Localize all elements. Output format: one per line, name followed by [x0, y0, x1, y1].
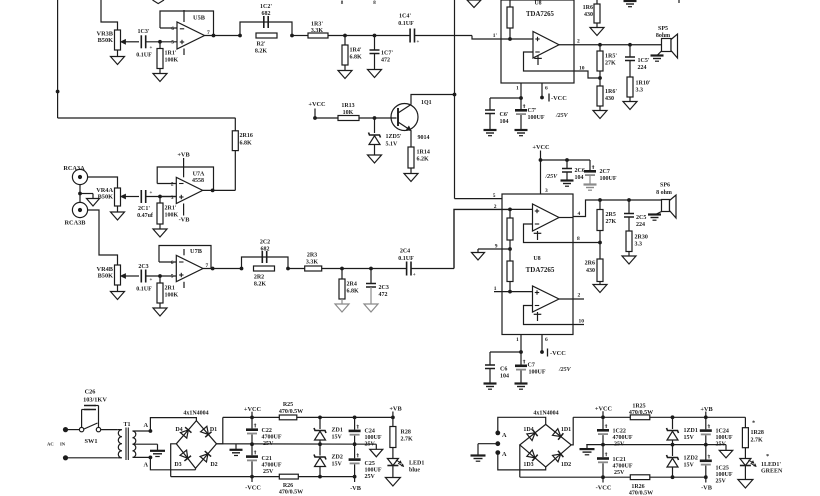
svg-text:2C2: 2C2 [260, 240, 270, 246]
svg-text:+VCC: +VCC [532, 144, 550, 151]
svg-text:-VCC: -VCC [596, 485, 612, 492]
svg-text:TDA7265: TDA7265 [526, 266, 555, 274]
svg-text:U8: U8 [533, 256, 540, 262]
svg-text:5: 5 [171, 40, 174, 46]
svg-text:1C3': 1C3' [138, 29, 150, 35]
svg-text:2.7K: 2.7K [751, 438, 764, 444]
svg-text:104: 104 [500, 119, 509, 125]
svg-text:+: + [413, 273, 416, 278]
svg-text:U7B: U7B [190, 248, 203, 255]
svg-text:+: + [150, 278, 153, 283]
svg-text:+: + [417, 40, 420, 45]
svg-text:TDA7265: TDA7265 [526, 11, 555, 18]
svg-text:100UF: 100UF [365, 468, 382, 474]
svg-text:2R4: 2R4 [347, 282, 357, 288]
svg-text:5: 5 [493, 193, 496, 199]
svg-text:-VCC: -VCC [551, 95, 567, 102]
svg-text:A: A [143, 422, 148, 429]
svg-text:SW1: SW1 [85, 438, 98, 445]
svg-text:A: A [502, 451, 507, 458]
svg-text:1D4: 1D4 [523, 427, 533, 433]
svg-text:C26: C26 [85, 389, 96, 396]
svg-text:103/1KV: 103/1KV [83, 397, 107, 404]
svg-text:2R2: 2R2 [254, 275, 264, 281]
svg-text:RCA3B: RCA3B [65, 220, 87, 227]
svg-text:RCA3A: RCA3A [63, 165, 85, 172]
svg-text:2R6: 2R6 [585, 261, 595, 267]
svg-text:1R14: 1R14 [417, 150, 430, 156]
svg-text:+VB: +VB [700, 406, 713, 413]
svg-text:224: 224 [638, 65, 647, 71]
svg-text:1ZD1: 1ZD1 [684, 428, 698, 434]
svg-text:3.3K: 3.3K [306, 260, 319, 266]
svg-text:0.1UF: 0.1UF [398, 256, 414, 262]
svg-text:25V: 25V [365, 442, 376, 448]
svg-text:25V: 25V [716, 442, 727, 448]
svg-text:1R3': 1R3' [311, 22, 323, 28]
svg-text:1D2: 1D2 [561, 462, 571, 468]
svg-text:GREEN: GREEN [761, 469, 783, 475]
svg-text:2: 2 [494, 204, 497, 210]
svg-text:6: 6 [171, 260, 174, 266]
svg-text:-VCC: -VCC [550, 350, 566, 357]
svg-text:15V: 15V [684, 463, 695, 469]
svg-text:682: 682 [262, 11, 271, 17]
svg-text:2C3: 2C3 [138, 264, 148, 270]
svg-text:2R16: 2R16 [240, 133, 253, 139]
svg-text:+VCC: +VCC [308, 101, 326, 108]
svg-text:2R5: 2R5 [606, 212, 616, 218]
svg-text:A: A [502, 432, 507, 439]
svg-text:2C4: 2C4 [400, 249, 410, 255]
svg-text:25V: 25V [614, 441, 625, 447]
svg-text:4700UF: 4700UF [262, 435, 282, 441]
svg-text:25V: 25V [365, 474, 376, 480]
svg-text:C21: C21 [262, 456, 272, 462]
svg-text:LED1: LED1 [409, 461, 424, 467]
svg-text:100UF: 100UF [716, 472, 733, 478]
svg-text:15V: 15V [332, 435, 343, 441]
svg-text:470/0.5W: 470/0.5W [629, 490, 653, 496]
svg-text:/25V: /25V [545, 174, 559, 180]
svg-text:3: 3 [545, 188, 548, 194]
svg-text:2: 2 [577, 39, 580, 45]
svg-text:100K: 100K [165, 213, 179, 219]
svg-text:R28: R28 [401, 430, 411, 436]
svg-text:27K: 27K [605, 61, 616, 67]
svg-text:D1: D1 [210, 427, 217, 433]
svg-text:1R6': 1R6' [605, 89, 617, 95]
svg-text:1R28: 1R28 [751, 430, 764, 436]
svg-text:100UF: 100UF [600, 176, 617, 182]
svg-text:6.8K: 6.8K [347, 289, 360, 295]
svg-text:3.3: 3.3 [636, 88, 644, 94]
svg-text:U7A: U7A [193, 172, 205, 178]
svg-text:10: 10 [579, 319, 585, 325]
svg-text:+VCC: +VCC [595, 406, 613, 413]
svg-text:C6: C6 [500, 367, 507, 373]
svg-text:-VB: -VB [350, 485, 362, 492]
svg-text:100K: 100K [165, 293, 179, 299]
svg-text:SP6: SP6 [660, 183, 670, 189]
svg-text:100K: 100K [165, 58, 179, 64]
svg-text:+VB: +VB [177, 152, 190, 159]
svg-text:B50K: B50K [98, 194, 113, 201]
svg-text:B50K: B50K [98, 273, 113, 280]
svg-text:/25V: /25V [558, 367, 572, 373]
svg-text:1C25: 1C25 [716, 466, 729, 472]
svg-text:2R1': 2R1' [165, 206, 177, 212]
svg-text:2R1: 2R1 [165, 286, 175, 292]
svg-text:1R6: 1R6 [583, 5, 593, 11]
svg-text:1C7': 1C7' [381, 51, 393, 57]
svg-text:100UF: 100UF [716, 435, 733, 441]
svg-text:470/0.5W: 470/0.5W [629, 410, 653, 416]
svg-text:4700UF: 4700UF [613, 435, 633, 441]
svg-text:100UF: 100UF [529, 370, 546, 376]
svg-text:470/0.5W: 470/0.5W [279, 490, 303, 496]
svg-text:1R5': 1R5' [605, 54, 617, 60]
svg-text:1LED1': 1LED1' [761, 462, 781, 468]
svg-text:1R26: 1R26 [631, 484, 644, 490]
svg-text:100UF: 100UF [528, 115, 545, 121]
svg-text:6: 6 [545, 337, 548, 343]
svg-text:10: 10 [579, 66, 585, 72]
svg-text:*: * [752, 420, 755, 427]
svg-text:+: + [150, 46, 153, 51]
svg-text:1R4': 1R4' [350, 48, 362, 54]
svg-text:2: 2 [171, 182, 174, 188]
svg-text:25V: 25V [263, 469, 274, 475]
svg-text:3.3K: 3.3K [311, 28, 324, 34]
svg-text:AC: AC [47, 442, 54, 447]
svg-text:+VCC: +VCC [244, 406, 262, 413]
svg-text:2C5: 2C5 [636, 215, 646, 221]
svg-text:1R13: 1R13 [341, 103, 354, 109]
svg-text:15V: 15V [332, 462, 343, 468]
svg-text:100UF: 100UF [365, 435, 382, 441]
svg-text:470/0.5W: 470/0.5W [279, 409, 303, 415]
svg-text:2C6: 2C6 [575, 168, 585, 174]
svg-text:8 ohm: 8 ohm [656, 190, 672, 196]
svg-text:6.8K: 6.8K [350, 55, 363, 61]
svg-text:1': 1' [493, 33, 498, 39]
svg-text:0.1UF: 0.1UF [398, 21, 414, 27]
svg-text:2R3: 2R3 [307, 253, 317, 259]
svg-text:1R1': 1R1' [165, 51, 177, 57]
svg-text:D4: D4 [175, 427, 182, 433]
svg-text:blue: blue [409, 468, 420, 474]
svg-text:4700UF: 4700UF [262, 463, 282, 469]
svg-text:27K: 27K [606, 219, 617, 225]
svg-text:1C4': 1C4' [399, 14, 411, 20]
svg-text:25V: 25V [614, 470, 625, 476]
svg-text:T1: T1 [124, 422, 131, 428]
svg-text:8ohm: 8ohm [656, 33, 670, 39]
svg-text:/25V: /25V [555, 113, 569, 119]
svg-text:3.3: 3.3 [635, 242, 643, 248]
svg-text:1C5': 1C5' [638, 58, 650, 64]
svg-text:U8: U8 [534, 1, 541, 7]
svg-text:-VB: -VB [701, 485, 713, 492]
svg-text:R26: R26 [283, 483, 293, 489]
svg-text:2C7: 2C7 [600, 169, 610, 175]
svg-text:2C3: 2C3 [379, 285, 389, 291]
svg-text:0.47uf: 0.47uf [137, 213, 154, 219]
svg-text:1C21: 1C21 [613, 457, 626, 463]
svg-text:-VB: -VB [179, 217, 191, 224]
svg-text:+VB: +VB [389, 406, 402, 413]
svg-text:430: 430 [584, 12, 593, 18]
svg-text:U5B: U5B [193, 15, 206, 22]
svg-text:104: 104 [575, 175, 584, 181]
svg-text:6.8K: 6.8K [240, 141, 253, 147]
svg-text:224: 224 [636, 222, 645, 228]
svg-text:+: + [150, 191, 153, 196]
svg-text:C7: C7 [528, 363, 535, 369]
svg-text:682: 682 [261, 247, 270, 253]
svg-text:15V: 15V [684, 435, 695, 441]
svg-text:2C1': 2C1' [138, 206, 150, 212]
svg-text:4700UF: 4700UF [613, 464, 633, 470]
svg-text:8.2K: 8.2K [254, 282, 267, 288]
svg-text:ZD2: ZD2 [332, 455, 343, 461]
svg-text:1: 1 [516, 337, 519, 343]
svg-text:0.1UF: 0.1UF [136, 53, 152, 59]
svg-text:472: 472 [379, 292, 388, 298]
svg-text:8: 8 [577, 236, 580, 242]
svg-text:4x1N4004: 4x1N4004 [183, 411, 208, 417]
svg-text:5.1V: 5.1V [386, 142, 399, 148]
svg-text:6: 6 [545, 86, 548, 92]
svg-text:1ZD2: 1ZD2 [684, 456, 698, 462]
svg-text:9014: 9014 [418, 135, 430, 141]
svg-text:R25: R25 [283, 402, 293, 408]
svg-text:4558: 4558 [192, 178, 204, 184]
svg-text:-VCC: -VCC [245, 485, 261, 492]
svg-text:1ZD5': 1ZD5' [386, 134, 402, 140]
svg-text:2.7K: 2.7K [401, 437, 414, 443]
svg-text:1C2': 1C2' [260, 4, 272, 10]
svg-text:D3: D3 [174, 462, 181, 468]
svg-text:1Q1: 1Q1 [421, 100, 432, 106]
svg-text:B50K: B50K [98, 37, 113, 44]
svg-text:4x1N4004: 4x1N4004 [533, 411, 558, 417]
svg-text:SP5: SP5 [658, 26, 668, 32]
svg-text:C24: C24 [365, 429, 375, 435]
svg-text:1R10': 1R10' [636, 81, 651, 87]
svg-text:C25: C25 [365, 461, 375, 467]
svg-text:472: 472 [381, 58, 390, 64]
svg-text:1C24: 1C24 [716, 429, 729, 435]
svg-text:0.1UF: 0.1UF [136, 287, 152, 293]
svg-text:430: 430 [586, 268, 595, 274]
svg-text:1D3: 1D3 [523, 462, 533, 468]
svg-text:1: 1 [494, 286, 497, 292]
svg-text:*: * [766, 453, 769, 460]
svg-text:25V: 25V [716, 479, 727, 485]
svg-text:104: 104 [500, 374, 509, 380]
svg-text:ZD1: ZD1 [332, 428, 343, 434]
svg-text:430: 430 [605, 96, 614, 102]
svg-text:2: 2 [578, 293, 581, 299]
svg-text:C7': C7' [528, 108, 537, 114]
svg-text:1: 1 [516, 86, 519, 92]
svg-text:2R30: 2R30 [635, 235, 648, 241]
svg-text:1C22: 1C22 [613, 429, 626, 435]
svg-text:10K: 10K [343, 110, 354, 116]
svg-text:C6': C6' [500, 112, 509, 118]
svg-text:1D1: 1D1 [561, 427, 571, 433]
svg-text:6.2K: 6.2K [417, 157, 430, 163]
svg-text:8.2K: 8.2K [255, 49, 268, 55]
svg-text:D2: D2 [210, 462, 217, 468]
svg-text:R2': R2' [257, 42, 266, 48]
svg-text:A: A [143, 462, 148, 469]
svg-text:C22: C22 [262, 428, 272, 434]
svg-text:6: 6 [171, 26, 174, 32]
svg-text:1R25: 1R25 [632, 404, 645, 410]
svg-text:IN: IN [60, 442, 66, 447]
svg-text:25V: 25V [263, 441, 274, 447]
